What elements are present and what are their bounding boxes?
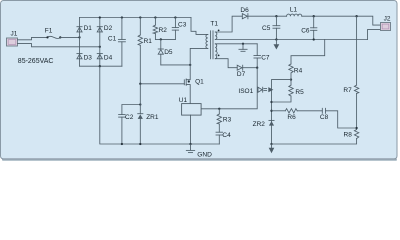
svg-text:D6: D6 xyxy=(240,7,249,14)
svg-text:C2: C2 xyxy=(125,114,134,121)
node R7 top xyxy=(355,15,357,17)
svg-text:D4: D4 xyxy=(104,54,113,61)
wire output rail right xyxy=(302,16,381,25)
transformer T1 secondary upper winding xyxy=(215,32,217,40)
svg-text:ISO1: ISO1 xyxy=(238,88,253,95)
svg-text:C3: C3 xyxy=(178,21,187,28)
wire secondary bottom rail xyxy=(272,139,357,145)
transformer T1 primary winding xyxy=(206,34,208,48)
svg-text:J2: J2 xyxy=(384,16,391,23)
connector J1 xyxy=(7,38,18,46)
node C5 top xyxy=(275,15,277,17)
svg-text:R1: R1 xyxy=(144,38,153,45)
diode D4 xyxy=(97,54,102,59)
ground GND symbol xyxy=(186,144,194,153)
svg-text:C1: C1 xyxy=(108,36,117,43)
zener ZR2 xyxy=(269,120,274,125)
wire J1 lower pin to bridge right column xyxy=(18,44,100,47)
svg-text:D3: D3 xyxy=(84,54,93,61)
wire D7 to node xyxy=(243,67,258,69)
svg-text:U1: U1 xyxy=(179,97,188,104)
IC U1 xyxy=(182,104,202,116)
wire R7 to R8 xyxy=(356,93,358,129)
diode D6 xyxy=(242,14,248,19)
node top rail C3 xyxy=(174,16,176,18)
resistor R3 xyxy=(217,109,221,132)
node C5 bottom xyxy=(275,38,277,40)
svg-text:R7: R7 xyxy=(343,87,352,94)
svg-text:R2: R2 xyxy=(159,27,168,34)
resistor R8 xyxy=(354,130,358,139)
node clamp D5 xyxy=(160,38,162,40)
wire bridge bottom rail xyxy=(80,65,122,67)
svg-text:L1: L1 xyxy=(290,6,298,13)
svg-text:D1: D1 xyxy=(84,25,93,32)
node top rail R2 xyxy=(154,16,156,18)
wire bridge left column xyxy=(79,18,81,67)
wire secondary top lead xyxy=(215,16,242,32)
svg-text:GND: GND xyxy=(197,151,212,158)
svg-text:D5: D5 xyxy=(164,49,173,56)
capacitor C4 xyxy=(216,132,223,144)
svg-text:C8: C8 xyxy=(320,114,329,121)
transformer T1 core xyxy=(211,31,213,59)
diode D7 xyxy=(237,65,243,70)
svg-text:R3: R3 xyxy=(223,117,232,124)
ground arrow under ZR2 xyxy=(269,144,275,153)
node AC2 xyxy=(99,46,101,48)
svg-text:ZR2: ZR2 xyxy=(253,121,266,128)
node C6 bottom xyxy=(313,38,315,40)
node top rail R1 xyxy=(139,16,141,18)
node opto to R5 wire xyxy=(270,101,272,103)
wire bridge right column xyxy=(99,18,101,67)
svg-text:Q1: Q1 xyxy=(195,78,204,85)
wire D5 to drain xyxy=(161,64,190,66)
transistor Q1 xyxy=(140,65,190,104)
node drain junction xyxy=(189,64,191,66)
svg-text:D7: D7 xyxy=(237,71,246,78)
wire J2 lower feed xyxy=(368,30,381,40)
node rail ZR1 xyxy=(139,143,141,145)
resistor R5 xyxy=(272,80,294,102)
wire clamp bottom xyxy=(155,38,175,40)
capacitor C3 xyxy=(172,18,178,40)
node R6 wire xyxy=(270,110,272,112)
node tap ground xyxy=(242,43,244,45)
wire R7 chain xyxy=(356,16,358,85)
transformer T1 lower winding xyxy=(215,44,217,59)
ground symbol tap xyxy=(239,44,247,52)
node R4 bottom xyxy=(290,78,292,80)
node AC1 xyxy=(78,36,80,38)
node D7 output xyxy=(256,67,258,69)
wire primary bottom rail xyxy=(100,66,220,144)
resistor R4 xyxy=(289,40,325,80)
svg-text:C5: C5 xyxy=(262,25,271,32)
capacitor C1 xyxy=(118,18,125,67)
wire R4 node to opto cathode xyxy=(272,80,292,144)
wire R1 node down to ZR1 and bottom rail xyxy=(139,84,141,114)
wire secondary common rail xyxy=(215,39,367,41)
svg-text:R5: R5 xyxy=(295,89,304,96)
wire primary bottom lead xyxy=(190,48,208,65)
node C6 top xyxy=(313,15,315,17)
wire bias vertical to feedback xyxy=(201,68,257,109)
phase dot lower winding xyxy=(218,55,220,57)
svg-text:D2: D2 xyxy=(104,25,113,32)
svg-text:R4: R4 xyxy=(294,67,303,74)
capacitor C5 xyxy=(273,16,280,39)
diode D2 xyxy=(97,27,102,32)
wire top rail to transformer primary xyxy=(191,18,208,35)
node top rail C1 xyxy=(121,16,123,18)
resistor R7 xyxy=(354,85,358,93)
svg-text:C4: C4 xyxy=(222,132,231,139)
svg-text:C7: C7 xyxy=(261,55,270,62)
fuse F1 xyxy=(46,36,61,38)
inductor L1 xyxy=(287,14,302,16)
wire lower tap rail xyxy=(215,43,257,45)
node bridge negative xyxy=(99,65,101,67)
resistor R2 xyxy=(153,18,157,40)
wire output rail xyxy=(248,15,287,17)
wire fuse to bridge left column xyxy=(60,36,79,38)
wire top rail primary xyxy=(80,17,192,19)
wire lower winding to D7 xyxy=(215,59,237,68)
diode D1 xyxy=(77,27,82,32)
wire U1 bottom to ground rail xyxy=(190,115,192,144)
svg-text:R8: R8 xyxy=(344,132,353,139)
node gate R1 xyxy=(139,83,141,85)
diode D5 xyxy=(158,39,163,65)
wire C2 branch xyxy=(122,105,140,115)
node rail C2 xyxy=(121,143,123,145)
panel background xyxy=(1,1,398,160)
svg-text:F1: F1 xyxy=(45,28,53,35)
wire J1 upper pin to fuse xyxy=(18,37,48,39)
ground arrow under C5 xyxy=(274,40,280,50)
capacitor C7 xyxy=(254,44,261,68)
svg-text:ZR1: ZR1 xyxy=(146,114,159,121)
capacitor C6 xyxy=(311,16,317,39)
phase dot secondary top xyxy=(218,30,220,32)
node rail U1 xyxy=(189,143,191,145)
svg-text:85-265VAC: 85-265VAC xyxy=(18,58,54,65)
optocoupler ISO1 xyxy=(258,87,273,92)
node ZR2 bottom xyxy=(270,143,272,145)
node R8 top xyxy=(355,127,357,129)
node C2 branch xyxy=(139,103,141,105)
resistor R1 xyxy=(138,18,142,84)
svg-text:J1: J1 xyxy=(11,31,18,38)
connector J2 xyxy=(381,23,391,31)
capacitor C8 xyxy=(322,108,356,128)
svg-text:T1: T1 xyxy=(210,21,218,28)
svg-text:C6: C6 xyxy=(301,28,310,35)
node top rail D2 xyxy=(99,16,101,18)
svg-text:R6: R6 xyxy=(287,114,296,121)
resistor R6 xyxy=(272,109,323,113)
node R3 top xyxy=(218,108,220,110)
diode D3 xyxy=(77,54,82,59)
capacitor C2 xyxy=(119,115,126,144)
zener ZR1 xyxy=(138,114,143,119)
